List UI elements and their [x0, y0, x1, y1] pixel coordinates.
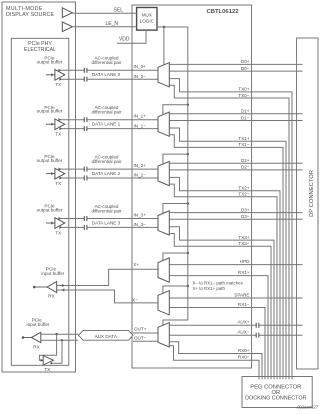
svg-text:DOCKING CONNECTOR: DOCKING CONNECTOR [245, 395, 306, 401]
svg-text:RX1−: RX1− [238, 302, 250, 307]
svg-text:VDD: VDD [119, 37, 130, 43]
svg-text:SEL: SEL [114, 8, 124, 14]
svg-text:DATA LANE 3: DATA LANE 3 [92, 220, 121, 225]
svg-text:TX0+: TX0+ [238, 87, 249, 92]
svg-text:input buffer: input buffer [41, 271, 64, 276]
svg-text:MUX: MUX [142, 13, 152, 18]
svg-text:TX: TX [55, 132, 61, 137]
svg-text:RX0−: RX0− [238, 355, 250, 360]
svg-text:D2+: D2+ [241, 158, 250, 163]
svg-text:LE_N: LE_N [105, 21, 118, 27]
svg-text:X+: X+ [133, 262, 139, 267]
svg-text:TX3−: TX3− [238, 241, 249, 246]
svg-text:TX0−: TX0− [238, 93, 249, 98]
svg-text:IN_3+: IN_3+ [134, 212, 147, 217]
svg-text:RX: RX [48, 294, 54, 299]
svg-text:X−: X− [132, 297, 138, 302]
svg-text:OUT+: OUT+ [134, 327, 147, 332]
svg-text:DISPLAY SOURCE: DISPLAY SOURCE [6, 12, 55, 18]
svg-text:DATA LANE 2: DATA LANE 2 [92, 171, 121, 176]
svg-text:RX0+: RX0+ [238, 348, 250, 353]
svg-text:RX: RX [33, 344, 39, 349]
svg-text:differential pair: differential pair [91, 110, 122, 115]
svg-text:DATA LANE 0: DATA LANE 0 [92, 72, 121, 77]
svg-text:D3+: D3+ [241, 207, 250, 212]
svg-text:differential pair: differential pair [91, 60, 122, 65]
svg-text:ELECTRICAL: ELECTRICAL [24, 47, 56, 53]
svg-text:TX1+: TX1+ [238, 136, 249, 141]
svg-text:TX: TX [55, 230, 61, 235]
svg-text:differential pair: differential pair [91, 208, 122, 213]
svg-text:LOGIC: LOGIC [140, 19, 155, 24]
svg-text:IN_0−: IN_0− [134, 74, 147, 79]
svg-text:output buffer: output buffer [37, 208, 63, 213]
svg-text:differential pair: differential pair [91, 159, 122, 164]
svg-text:X− to RX1− path matches: X− to RX1− path matches [193, 281, 244, 286]
svg-text:output buffer: output buffer [37, 158, 63, 163]
svg-text:TX1−: TX1− [238, 142, 249, 147]
svg-text:SPARE: SPARE [234, 292, 249, 297]
svg-text:RX1+: RX1+ [238, 270, 250, 275]
svg-text:IN_2−: IN_2− [134, 173, 147, 178]
svg-text:AUX+: AUX+ [237, 320, 249, 325]
svg-text:TX2−: TX2− [238, 192, 249, 197]
svg-text:TX: TX [55, 181, 61, 186]
svg-text:TX3+: TX3+ [238, 235, 249, 240]
svg-text:AUX DATA: AUX DATA [95, 334, 118, 339]
svg-text:input buffer: input buffer [27, 322, 50, 327]
svg-text:D1+: D1+ [241, 109, 250, 114]
svg-text:output buffer: output buffer [37, 109, 63, 114]
svg-text:AUX−: AUX− [237, 330, 249, 335]
svg-text:TX2+: TX2+ [238, 186, 249, 191]
svg-text:D3−: D3− [241, 214, 250, 219]
svg-text:X+ to RX1+ path: X+ to RX1+ path [193, 286, 226, 291]
svg-text:IN_1−: IN_1− [134, 123, 147, 128]
svg-text:TX: TX [44, 367, 50, 372]
svg-text:D0+: D0+ [241, 59, 250, 64]
svg-text:D1−: D1− [241, 115, 250, 120]
svg-text:CBTL06122: CBTL06122 [206, 9, 239, 15]
svg-text:IN_1+: IN_1+ [134, 114, 147, 119]
svg-text:IN_3−: IN_3− [134, 222, 147, 227]
svg-text:D2−: D2− [241, 165, 250, 170]
svg-text:OUT−: OUT− [134, 335, 147, 340]
svg-text:TX: TX [55, 82, 61, 87]
svg-text:002aae627: 002aae627 [297, 405, 319, 410]
svg-text:output buffer: output buffer [37, 59, 63, 64]
svg-text:IN_2+: IN_2+ [134, 163, 147, 168]
svg-text:D0−: D0− [241, 66, 250, 71]
svg-text:DATA LANE 1: DATA LANE 1 [92, 122, 121, 127]
svg-text:HPD: HPD [240, 259, 250, 264]
svg-text:IN_0+: IN_0+ [134, 64, 147, 69]
svg-text:DP CONNECTOR: DP CONNECTOR [309, 170, 315, 217]
